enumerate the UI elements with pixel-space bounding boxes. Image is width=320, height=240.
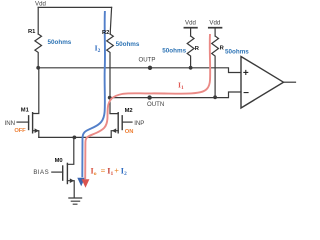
- wire output stub: [284, 81, 296, 83]
- svg-text:50ohms: 50ohms: [116, 41, 140, 48]
- transistor M1 source arrow: [35, 128, 39, 133]
- svg-text:R: R: [195, 46, 200, 52]
- power Vdd bar R3: [184, 27, 197, 29]
- wire OUTN line: [110, 92, 241, 98]
- junction dot R2/OUTN: [108, 96, 112, 100]
- wire Vdd top rail: [38, 6, 111, 8]
- wire M2 gate lead: [122, 121, 132, 123]
- resistor R2: [107, 34, 114, 98]
- transistor M2 drain from OUTN: [110, 98, 118, 114]
- wire R4 stem: [214, 28, 216, 36]
- svg-text:M2: M2: [125, 108, 133, 114]
- svg-text:50ohms: 50ohms: [162, 48, 186, 55]
- resistor R4: [212, 36, 219, 97]
- junction dot rail/OUTP: [36, 66, 40, 70]
- svg-text:+: +: [243, 68, 249, 79]
- junction dot R4/OUTN: [213, 95, 217, 99]
- resistor R3: [187, 36, 194, 68]
- current I2 arrowhead: [77, 178, 85, 187]
- svg-text:M1: M1: [21, 108, 30, 114]
- transistor M0 gate bar: [62, 166, 64, 180]
- svg-text:OUTN: OUTN: [147, 101, 164, 108]
- svg-text:I1: I1: [178, 81, 184, 91]
- current I1 red path: [85, 34, 210, 179]
- power Vdd bar R4: [209, 27, 222, 29]
- wire left rail top: [37, 7, 39, 34]
- svg-text:Vdd: Vdd: [35, 1, 46, 8]
- svg-text:ON: ON: [125, 129, 134, 135]
- svg-text:INN: INN: [5, 120, 16, 127]
- ground: [69, 198, 82, 204]
- wire OUTP line: [38, 68, 241, 73]
- svg-text:50ohms: 50ohms: [225, 49, 249, 56]
- svg-text:BIAS: BIAS: [33, 169, 49, 176]
- svg-text:Vdd: Vdd: [209, 20, 220, 27]
- junction dot R3/OUTP: [189, 66, 193, 70]
- wire M1 gate lead: [17, 121, 29, 123]
- svg-text:Io=I1+I2: Io=I1+I2: [91, 167, 127, 177]
- svg-text:Vdd: Vdd: [185, 20, 196, 27]
- svg-text:M0: M0: [55, 158, 63, 164]
- svg-text:I2: I2: [95, 44, 101, 54]
- svg-text:OUTP: OUTP: [139, 57, 156, 64]
- current I2 blue path: [82, 11, 105, 177]
- wire M0 drain: [67, 137, 73, 164]
- svg-text:−: −: [243, 88, 249, 99]
- svg-text:50ohms: 50ohms: [48, 39, 72, 46]
- op-amp U1: [241, 57, 284, 109]
- resistor R1: [35, 34, 42, 68]
- transistor M2 gate bar: [121, 116, 123, 130]
- svg-text:R2: R2: [102, 30, 109, 36]
- transistor M0 channel bar: [66, 163, 68, 183]
- node OUTP circle: [148, 66, 152, 70]
- node OUTN circle: [147, 95, 151, 99]
- svg-text:R: R: [220, 45, 225, 51]
- transistor M1 channel bar: [32, 113, 34, 133]
- wire M0 gate lead: [52, 171, 63, 173]
- svg-text:R1: R1: [28, 29, 36, 35]
- wire M2 source: [111, 131, 118, 138]
- transistor M2 channel bar: [117, 113, 119, 133]
- current I1 arrowhead: [82, 179, 90, 188]
- wire R3 stem: [190, 28, 192, 36]
- wire common source line: [39, 136, 111, 138]
- wire M1 source: [33, 131, 39, 138]
- transistor M0 source arrow: [70, 178, 74, 183]
- wire M0 source: [67, 181, 74, 198]
- wire R2 stem: [110, 7, 111, 34]
- transistor M2 source arrow: [112, 128, 116, 133]
- junction dot tail: [73, 136, 77, 140]
- svg-text:OFF: OFF: [14, 128, 26, 134]
- wire left rail to M1 drain: [33, 68, 39, 114]
- svg-text:INP: INP: [134, 120, 144, 127]
- transistor M1 gate bar: [28, 116, 30, 130]
